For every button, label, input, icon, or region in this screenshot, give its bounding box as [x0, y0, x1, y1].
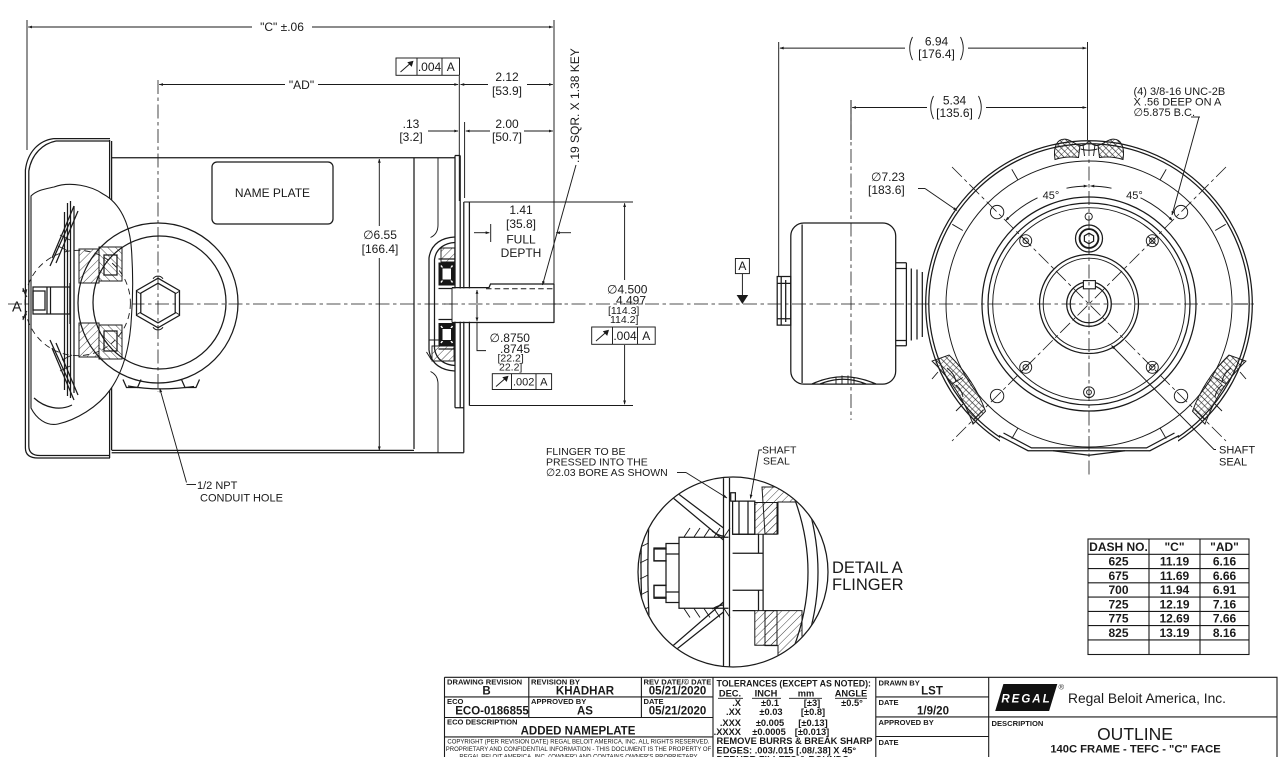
fan hub blocks (hatched) — [79, 247, 122, 359]
svg-text:ECO-0186855: ECO-0186855 — [455, 706, 529, 718]
conduit box (circular, on side of frame) — [78, 223, 238, 383]
svg-text:.13: .13 — [403, 117, 420, 131]
flinger blades upper — [650, 480, 724, 540]
cut-away section blob on fan end — [31, 184, 133, 424]
svg-text:675: 675 — [1108, 569, 1128, 583]
svg-text:825: 825 — [1108, 626, 1128, 640]
shaft seal label (front view) — [1112, 346, 1256, 469]
shaft — [444, 284, 562, 323]
svg-text:11.19: 11.19 — [1160, 555, 1190, 569]
bearing housing hatched upper — [755, 503, 777, 535]
svg-text:INCH: INCH — [755, 689, 778, 699]
svg-text:∅6.55: ∅6.55 — [363, 228, 397, 242]
svg-text:.19 SQR. X 1.38 KEY: .19 SQR. X 1.38 KEY — [568, 48, 582, 163]
svg-text:FULL: FULL — [506, 233, 536, 247]
svg-text:CONDUIT HOLE: CONDUIT HOLE — [200, 493, 283, 505]
FCF runout .004 A (top) — [396, 58, 460, 75]
svg-text:[176.4]: [176.4] — [918, 47, 955, 61]
svg-text:SHAFT: SHAFT — [1219, 445, 1255, 457]
grease plug hex at top — [1076, 213, 1103, 252]
svg-text:.004: .004 — [613, 329, 637, 343]
note (4) 3/8-16 UNC-2B with leader — [1134, 86, 1226, 215]
svg-text:Regal Beloit America, Inc.: Regal Beloit America, Inc. — [1068, 691, 1226, 706]
svg-text:[50.7]: [50.7] — [492, 130, 522, 144]
svg-text:.XX: .XX — [726, 707, 742, 717]
svg-text:TOLERANCES (EXCEPT AS NOTED):: TOLERANCES (EXCEPT AS NOTED): — [717, 679, 872, 689]
detail A dashed circle — [25, 250, 130, 355]
dim .13 [3.2] — [399, 117, 458, 144]
svg-text:COPYRIGHT (PER REVISION DATE): COPYRIGHT (PER REVISION DATE) REGAL BELO… — [447, 740, 710, 746]
svg-text:FLINGER: FLINGER — [832, 576, 904, 594]
svg-text:725: 725 — [1108, 597, 1128, 611]
svg-text:05/21/2020: 05/21/2020 — [649, 706, 707, 718]
svg-text:[183.6]: [183.6] — [868, 183, 905, 197]
svg-text:"AD": "AD" — [289, 78, 314, 92]
svg-text:REGAL: REGAL — [1001, 694, 1051, 706]
dim (5.34 [135.6]) — [851, 94, 1086, 141]
dim "AD" — [159, 78, 458, 92]
shaft through detail — [733, 534, 764, 610]
svg-text:NAME PLATE: NAME PLATE — [235, 186, 310, 200]
C-face flange plates — [455, 156, 469, 453]
detail label — [832, 559, 904, 594]
svg-text:APPROVED BY: APPROVED BY — [879, 718, 934, 727]
datum A flag — [735, 259, 749, 305]
conduit box vertical centerline — [157, 80, 159, 392]
vertical centerline front view — [1088, 142, 1090, 476]
fan cover (shroud) — [25, 139, 111, 458]
svg-text:114.2]: 114.2] — [610, 314, 638, 326]
REGAL logo — [995, 683, 1226, 712]
detail circle — [638, 477, 828, 667]
bearing housing hatched lower — [755, 611, 777, 646]
svg-text:140C FRAME - TEFC - "C" FACE: 140C FRAME - TEFC - "C" FACE — [1050, 744, 1221, 756]
shaft stub and fan bolt — [33, 283, 70, 324]
svg-text:1/9/20: 1/9/20 — [917, 706, 949, 718]
svg-text:6.91: 6.91 — [1213, 583, 1237, 597]
4 thru-bolt heads — [1020, 235, 1159, 374]
svg-text:DRAWN BY: DRAWN BY — [879, 679, 920, 688]
svg-text:ANGLE: ANGLE — [835, 689, 868, 699]
svg-text:22.2]: 22.2] — [499, 362, 522, 374]
frame seam ticks on ring — [952, 169, 1248, 438]
end bell (bearing bracket) — [427, 158, 455, 453]
svg-text:"C" ±.06: "C" ±.06 — [260, 20, 304, 34]
svg-text:B: B — [482, 686, 490, 698]
description cell — [992, 719, 1222, 756]
4 tapped holes on 5.875 B.C. — [990, 205, 1187, 402]
svg-text:13.19: 13.19 — [1159, 626, 1189, 640]
svg-text:REMOVE BURRS & BREAK SHARP: REMOVE BURRS & BREAK SHARP — [717, 736, 873, 746]
fan cover wall (left) — [641, 508, 650, 636]
svg-text:AS: AS — [577, 706, 593, 718]
svg-text:OUTLINE: OUTLINE — [1097, 724, 1173, 744]
dim dia 6.55 [166.4] — [362, 159, 399, 450]
front view: outer frame circles — [926, 141, 1253, 468]
dim 1.41 [35.8] FULL DEPTH — [474, 203, 571, 260]
bearing boss circles — [1040, 255, 1139, 354]
svg-text:A: A — [738, 259, 746, 273]
leaders into detail — [546, 445, 797, 499]
motor frame body — [112, 158, 464, 453]
shaft seal part — [731, 493, 755, 535]
svg-text:.004: .004 — [418, 60, 442, 74]
dim "C" +-.06 — [28, 20, 553, 34]
flange pilot circles — [982, 197, 1196, 411]
svg-text:KHADHAR: KHADHAR — [556, 686, 615, 698]
shaft + seal circles — [1067, 281, 1112, 327]
svg-text:±0.03: ±0.03 — [759, 707, 782, 717]
leader: 1/2 NPT conduit hole — [160, 389, 283, 505]
svg-text:∅5.875 B.C.: ∅5.875 B.C. — [1134, 107, 1196, 119]
svg-text:DEPTH: DEPTH — [501, 246, 542, 260]
svg-text:SEAL: SEAL — [763, 456, 790, 468]
extension lines — [26, 20, 28, 150]
wire: main horizontal centerline — [8, 303, 1256, 305]
key note (rotated) with leader — [543, 48, 583, 285]
svg-text:700: 700 — [1108, 583, 1128, 597]
svg-text:[±0.8]: [±0.8] — [801, 707, 825, 717]
svg-text:[166.4]: [166.4] — [362, 242, 399, 256]
svg-text:2.12: 2.12 — [495, 70, 519, 84]
svg-text:[135.6]: [135.6] — [936, 106, 973, 120]
conduit box vertical centerline (front view) — [850, 100, 852, 420]
dim 2.12 [53.9] — [461, 70, 553, 98]
bore curve right — [802, 487, 818, 656]
45 deg dims with arcs — [1006, 186, 1173, 221]
bottom-left foot pad (hatched) — [932, 355, 985, 424]
dim 2.00 [50.7] — [466, 117, 553, 144]
dim dia .8750/.8745 [22.2/22.2] with FCF .002 A — [477, 290, 552, 390]
svg-text:PROPRIETARY AND CONFIDENTIAL I: PROPRIETARY AND CONFIDENTIAL INFORMATION… — [446, 747, 712, 753]
svg-text:1/2 NPT: 1/2 NPT — [197, 480, 238, 492]
svg-text:"C": "C" — [1164, 540, 1184, 554]
svg-text:DESCRIPTION: DESCRIPTION — [992, 719, 1044, 728]
svg-text:∅7.23: ∅7.23 — [871, 170, 905, 184]
svg-text:ECO DESCRIPTION: ECO DESCRIPTION — [447, 718, 517, 727]
conduit box bottom tabs — [123, 380, 200, 389]
svg-text:ADDED NAMEPLATE: ADDED NAMEPLATE — [521, 726, 636, 738]
svg-text:A: A — [540, 377, 548, 389]
svg-text:12.69: 12.69 — [1159, 612, 1189, 626]
svg-text:"AD": "AD" — [1210, 540, 1239, 554]
dim dia 4.500/4.497 [114.3/114.2] with FCF .004 A — [592, 203, 656, 404]
svg-text:05/21/2020: 05/21/2020 — [649, 686, 707, 698]
svg-text:775: 775 — [1108, 612, 1128, 626]
svg-text:SEAL: SEAL — [1219, 457, 1247, 469]
svg-text:[53.9]: [53.9] — [492, 84, 522, 98]
svg-text:A: A — [12, 300, 22, 316]
tolerances block — [714, 679, 873, 757]
svg-text:[3.2]: [3.2] — [399, 130, 422, 144]
svg-text:12.19: 12.19 — [1159, 597, 1189, 611]
section A label + arrows — [12, 288, 27, 320]
svg-text:DATE: DATE — [879, 738, 899, 747]
name plate — [212, 162, 333, 224]
svg-text:[35.8]: [35.8] — [506, 217, 536, 231]
conduit box profile (left of front view) — [777, 223, 922, 384]
dim dia 7.23 [183.6] with leader — [868, 170, 957, 211]
svg-text:A: A — [642, 329, 650, 343]
svg-text:LST: LST — [921, 686, 943, 698]
bottom flat chord (masks circle bottom) — [1000, 437, 1178, 473]
svg-text:A: A — [447, 60, 455, 74]
dim (6.94 [176.4]) — [779, 35, 1088, 278]
svg-text:DEC.: DEC. — [719, 689, 741, 699]
svg-text:45°: 45° — [1126, 190, 1143, 202]
svg-text:8.16: 8.16 — [1213, 626, 1237, 640]
small drain hole bottom — [1084, 387, 1095, 398]
flinger disc — [724, 478, 730, 668]
svg-text:625: 625 — [1108, 555, 1128, 569]
svg-text:±0.5°: ±0.5° — [841, 698, 863, 708]
svg-text:mm: mm — [798, 689, 815, 699]
svg-text:DETAIL A: DETAIL A — [832, 559, 903, 577]
svg-text:DATE: DATE — [879, 698, 899, 707]
diagonal centerlines 45 deg — [952, 167, 1226, 441]
bottom-right foot pad (hatched) — [1193, 355, 1246, 424]
svg-text:7.16: 7.16 — [1213, 597, 1237, 611]
svg-text:.002: .002 — [513, 377, 534, 389]
svg-text:11.69: 11.69 — [1160, 569, 1190, 583]
svg-text:45°: 45° — [1043, 190, 1060, 202]
bearings (dark) in end bell — [439, 259, 456, 349]
drawn by block — [879, 679, 949, 748]
top lifting lug (hatched) — [1054, 139, 1123, 159]
svg-text:6.66: 6.66 — [1213, 569, 1237, 583]
corner hatch top right — [779, 483, 802, 500]
svg-text:DASH NO.: DASH NO. — [1089, 540, 1148, 554]
hex plug in conduit box — [137, 276, 180, 330]
hub with bolts — [654, 528, 730, 618]
svg-text:∅2.03 BORE AS SHOWN: ∅2.03 BORE AS SHOWN — [546, 467, 668, 479]
fan (inside cut-away): disc and blades — [34, 201, 78, 408]
svg-text:11.94: 11.94 — [1160, 583, 1190, 597]
svg-text:1.41: 1.41 — [509, 203, 533, 217]
svg-text:2.00: 2.00 — [495, 117, 519, 131]
flinger blades lower — [652, 602, 724, 664]
svg-text:6.16: 6.16 — [1213, 555, 1237, 569]
svg-text:®: ® — [1059, 683, 1065, 692]
svg-text:7.66: 7.66 — [1213, 612, 1237, 626]
